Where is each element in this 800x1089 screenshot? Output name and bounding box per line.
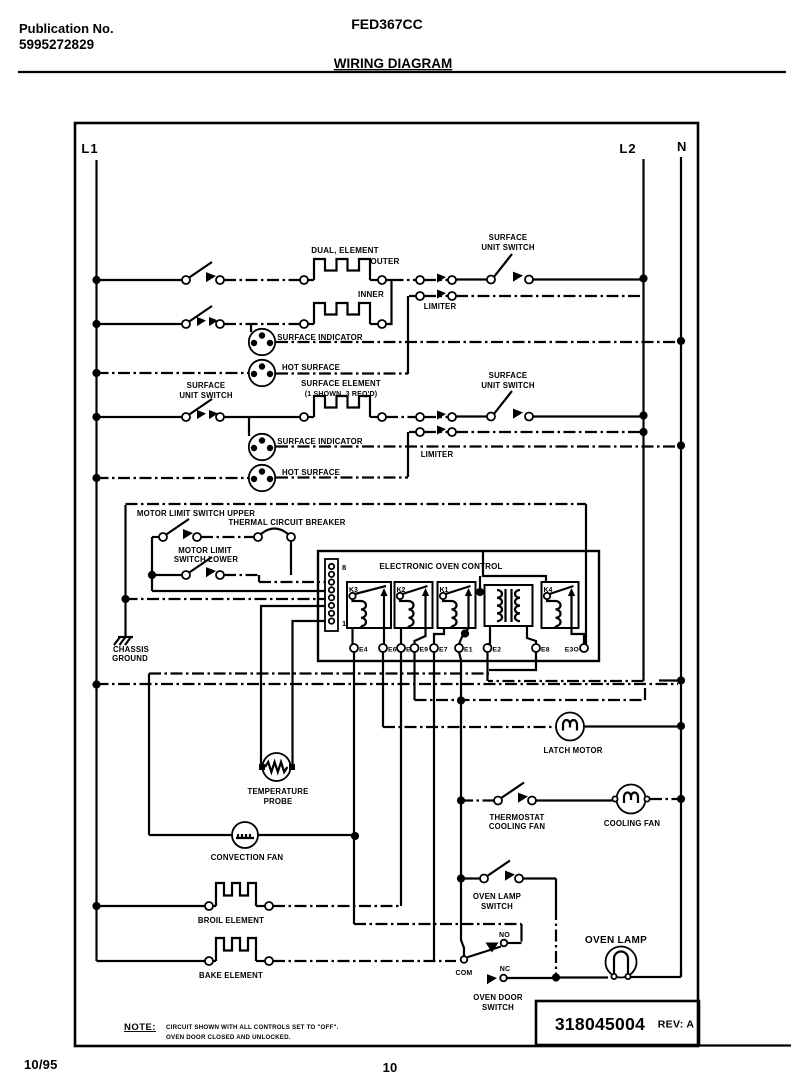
switch thermostat cooling fan (494, 797, 502, 805)
wire upper switch to TCB (201, 536, 254, 538)
wire surface element right lead (370, 416, 378, 418)
svg-text:SWITCH LOWER: SWITCH LOWER (174, 555, 239, 564)
junction lower-limit-switch feed (148, 571, 156, 579)
wire chassis branch to EOC pin strip (126, 598, 326, 600)
surface unit switch SW1 (right) (487, 276, 495, 284)
wire K2 coil to E5 (400, 628, 402, 644)
wire E5 drop (400, 652, 402, 906)
diagram border frame (75, 123, 698, 1046)
wire lower switch feed (152, 574, 182, 576)
svg-text:COOLING FAN: COOLING FAN (489, 822, 546, 831)
wire E8 jog to E2 drop (489, 652, 536, 670)
svg-text:E7: E7 (439, 647, 448, 654)
svg-text:CONVECTION FAN: CONVECTION FAN (211, 853, 284, 862)
wire K3 arrow to E6 (383, 628, 385, 644)
wire NC to junction (507, 977, 552, 979)
indicator lamp SURFACE INDICATOR 2 (249, 434, 275, 460)
terminal outer element right (378, 276, 386, 284)
svg-text:COOLING FAN: COOLING FAN (604, 819, 661, 828)
svg-text:SURFACE: SURFACE (489, 233, 528, 242)
thermal circuit breaker (254, 529, 295, 542)
terminal surface element right (378, 413, 386, 421)
wire broil right lead (256, 905, 265, 907)
wire lower switch to EOC pin (224, 575, 325, 582)
svg-text:(1 SHOWN, 3 REQ'D): (1 SHOWN, 3 REQ'D) (305, 391, 378, 398)
wire TCB drop to lower row (290, 541, 292, 575)
svg-text:ELECTRONIC OVEN CONTROL: ELECTRONIC OVEN CONTROL (379, 562, 502, 571)
wire limiter2 bracket down (407, 432, 409, 477)
svg-text:HOT SURFACE: HOT SURFACE (282, 468, 340, 477)
junction L1 long run (92, 680, 100, 688)
svg-text:SURFACE INDICATOR: SURFACE INDICATOR (277, 437, 363, 446)
junction latch motor N (677, 722, 685, 730)
limiter contact dashes (424, 295, 448, 297)
wire K1 coil to E7 (434, 628, 444, 644)
wire stub to N (659, 679, 677, 681)
wire lamp switch drop solid (555, 879, 557, 909)
limiter contact dashes (424, 431, 448, 433)
wire E1 drop (459, 652, 464, 956)
junction L1 row2 (92, 320, 100, 328)
junction L1 row4 (92, 413, 100, 421)
wire chassis to E3O top run (126, 503, 587, 505)
EOC pin connector strip (325, 559, 338, 631)
wire T1 to E8 (527, 626, 536, 644)
wire hot-surface2 to limiter2 bracket (276, 476, 408, 478)
svg-text:UNIT SWITCH: UNIT SWITCH (481, 381, 534, 390)
terminal inner element right (378, 320, 386, 328)
wire T1 to E2 (488, 626, 491, 644)
svg-text:REV: A: REV: A (658, 1019, 695, 1031)
triangle NC (487, 974, 497, 984)
svg-text:MOTOR LIMIT SWITCH UPPER: MOTOR LIMIT SWITCH UPPER (137, 509, 255, 518)
svg-text:NC: NC (500, 966, 511, 973)
svg-text:SURFACE ELEMENT: SURFACE ELEMENT (301, 379, 381, 388)
wire probe right from pin strip (293, 621, 326, 764)
svg-text:N: N (677, 139, 687, 154)
wire N bus vertical (680, 157, 682, 977)
wire row4 after element (386, 416, 416, 418)
svg-text:10/95: 10/95 (24, 1057, 58, 1072)
svg-text:8: 8 (342, 563, 346, 572)
motor cooling fan (612, 785, 649, 814)
wire limiter2 to L2 (456, 431, 640, 433)
wire convection fan to E4 node (258, 834, 352, 836)
junction row1 L2 (639, 274, 647, 282)
svg-text:SWITCH: SWITCH (481, 902, 513, 911)
header rule (18, 71, 786, 73)
relay K2 (395, 582, 433, 628)
svg-text:CHASSIS: CHASSIS (113, 645, 149, 654)
svg-text:THERMAL CIRCUIT BREAKER: THERMAL CIRCUIT BREAKER (228, 518, 345, 527)
svg-text:SWITCH: SWITCH (482, 1003, 514, 1012)
svg-text:5995272829: 5995272829 (19, 37, 94, 52)
svg-text:L2: L2 (619, 141, 636, 156)
svg-text:OVEN DOOR: OVEN DOOR (473, 993, 523, 1002)
wire K3 coil to E4 (351, 628, 353, 644)
terminal door switch NO (501, 940, 508, 947)
svg-text:CIRCUIT SHOWN WITH ALL CONTROL: CIRCUIT SHOWN WITH ALL CONTROLS SET TO "… (166, 1024, 339, 1031)
svg-text:E6: E6 (388, 647, 397, 654)
svg-text:1: 1 (342, 619, 346, 628)
limiter 2 contacts (416, 428, 424, 436)
svg-text:UNIT SWITCH: UNIT SWITCH (481, 243, 534, 252)
terminal bake left (205, 957, 213, 965)
wire hot-surface1 to limiter bracket (276, 372, 408, 374)
svg-text:OVEN LAMP: OVEN LAMP (473, 892, 521, 901)
wire outer element lead (308, 279, 314, 281)
terminal E1 (455, 644, 463, 652)
svg-text:MOTOR LIMIT: MOTOR LIMIT (178, 546, 232, 555)
contact pair row1 (416, 276, 424, 284)
junction diamond at K4 feed (476, 588, 484, 596)
svg-text:OVEN LAMP: OVEN LAMP (585, 935, 647, 946)
heating element BROIL ELEMENT (216, 883, 256, 906)
chassis ground symbol (114, 633, 133, 645)
junction NC lamp feed (552, 973, 560, 981)
wire diamond riser (479, 576, 481, 592)
svg-text:E4: E4 (359, 647, 368, 654)
svg-text:WIRING DIAGRAM: WIRING DIAGRAM (334, 56, 453, 71)
svg-text:L1: L1 (81, 141, 98, 156)
junction E1/E9 run (457, 696, 465, 704)
limiter contact dashes (424, 416, 448, 418)
wire convection top run (149, 672, 489, 674)
svg-text:BROIL ELEMENT: BROIL ELEMENT (198, 916, 264, 925)
svg-text:E8: E8 (541, 647, 550, 654)
wire outer/inner join riser (386, 280, 392, 324)
junction L1 hot-surface1 (92, 369, 100, 377)
svg-text:OUTER: OUTER (371, 257, 400, 266)
wire broil from L1 (97, 905, 206, 907)
wire indicator2 riser (248, 417, 250, 436)
wire indicator1 riser from row2 (250, 324, 252, 332)
relay K1 (438, 582, 476, 628)
svg-text:DUAL, ELEMENT: DUAL, ELEMENT (311, 246, 379, 255)
surface unit switch pole 1 (row1) (182, 276, 190, 284)
surface unit switch pole (row4) (182, 413, 190, 421)
lamp OVEN LAMP (606, 947, 637, 980)
wire E9 run right riser (415, 688, 646, 700)
wire limiter1 left stub (409, 295, 416, 297)
wire row4 to element (224, 416, 300, 418)
wire E6 drop (382, 652, 384, 727)
wire row2 to inner element (224, 323, 300, 325)
svg-text:10: 10 (383, 1060, 398, 1075)
transformer T1 (485, 585, 533, 626)
svg-text:LATCH MOTOR: LATCH MOTOR (543, 746, 602, 755)
wire broil lead (213, 905, 216, 907)
wire upper-limit-switch feed (152, 536, 159, 538)
wire row1 after elements (392, 279, 417, 281)
wire bake from L1 end (97, 960, 206, 962)
wire common to EOC pin (152, 590, 325, 592)
wire row1 to outer element (224, 279, 300, 281)
wire NO bracket drop (520, 924, 522, 942)
wire surface element lead (308, 416, 314, 418)
wire hot-surface2 from L1 (97, 477, 250, 479)
wire indicator2 to N (276, 445, 677, 447)
svg-text:INNER: INNER (358, 290, 384, 299)
terminal outer element left (300, 276, 308, 284)
terminal E2 (484, 644, 492, 652)
motor limit switch lower (182, 571, 190, 579)
junction L1 broil (92, 902, 100, 910)
terminal bake right (265, 957, 273, 965)
indicator lamp HOT SURFACE 1 (249, 360, 275, 386)
bottom page rule extension (698, 1044, 791, 1046)
wire E2 drop (486, 652, 488, 681)
svg-text:SURFACE: SURFACE (489, 371, 528, 380)
wire limiter1 bracket down to hot-surface row (407, 296, 409, 374)
wire L1 bus vertical (95, 160, 97, 961)
wire E6 to latch motor (383, 726, 556, 728)
heating element DUAL ELEMENT INNER (314, 303, 370, 324)
junction chassis branch (121, 595, 129, 603)
heating element BAKE ELEMENT (216, 938, 256, 961)
wire row4 from L1 (97, 416, 183, 418)
wire indicator1 to N (276, 341, 677, 343)
wire to convection fan (149, 834, 232, 836)
terminal door switch COM (461, 956, 468, 963)
motor convection fan (232, 822, 258, 848)
wire L2 bus vertical (642, 159, 644, 681)
wire row1 to L2 (533, 278, 640, 280)
wire K2 arrow to E9 (415, 628, 426, 644)
wire row2 from L1 (97, 323, 183, 325)
heating element SURFACE ELEMENT (314, 396, 370, 417)
junction indicator1 N (677, 337, 685, 345)
terminal inner element left (300, 320, 308, 328)
wire lamp switch output (523, 877, 556, 879)
electronic oven control box (318, 551, 599, 661)
svg-text:UNIT SWITCH: UNIT SWITCH (179, 391, 232, 400)
terminal surface element left (300, 413, 308, 421)
wire long L1-N run (97, 683, 679, 685)
terminal E5 (397, 644, 405, 652)
wire outer element right lead (370, 279, 378, 281)
junction E4 convection fan (351, 832, 359, 840)
terminal broil left (205, 902, 213, 910)
wire limiter1 to L2 (456, 295, 643, 297)
wire limit switch common bracket (151, 537, 153, 591)
wire to thermostat switch (461, 799, 494, 801)
junction limiter2 L2 (639, 428, 647, 436)
temperature probe (259, 753, 295, 781)
motor LATCH MOTOR (556, 713, 584, 741)
heating element DUAL ELEMENT OUTER (314, 259, 370, 280)
terminal door switch NC (500, 975, 507, 982)
wire E4 drop (353, 652, 355, 924)
wire K1 arrow to E1 (459, 628, 469, 644)
junction row4 L2 (639, 411, 647, 419)
wire probe left from pin strip (261, 606, 325, 764)
wire oven lamp to N (630, 970, 681, 977)
door switch blade COM-NO (467, 947, 502, 958)
terminal broil right (265, 902, 273, 910)
terminal E7 (430, 644, 438, 652)
junction L1 hot-surface2 (92, 474, 100, 482)
svg-text:SURFACE INDICATOR: SURFACE INDICATOR (277, 333, 363, 342)
surface unit switch SW2 (right) (487, 413, 495, 421)
wire inner element right lead (370, 323, 378, 325)
svg-text:318045004: 318045004 (555, 1014, 645, 1034)
terminal E3O (580, 644, 588, 652)
wire row4 to L2 (533, 415, 640, 417)
terminal E9 (411, 644, 419, 652)
svg-text:HOT SURFACE: HOT SURFACE (282, 363, 340, 372)
svg-text:PROBE: PROBE (264, 797, 293, 806)
wire to oven lamp (556, 976, 608, 978)
svg-text:GROUND: GROUND (112, 654, 148, 663)
wire to oven lamp switch (461, 877, 480, 879)
svg-text:NO: NO (499, 932, 510, 939)
wire convection left riser (148, 674, 150, 836)
surface unit switch pole 2 (row2) (182, 320, 190, 328)
wire bake right lead (256, 960, 265, 962)
junction L1 row1 (92, 276, 100, 284)
junction oven lamp switch feed (457, 874, 465, 882)
svg-text:LIMITER: LIMITER (424, 302, 457, 311)
relay K4 (542, 582, 579, 628)
wire E9 drop (413, 652, 415, 700)
svg-text:E3O: E3O (565, 647, 579, 654)
svg-text:BAKE ELEMENT: BAKE ELEMENT (199, 971, 263, 980)
svg-text:E2: E2 (493, 647, 502, 654)
wire K4 pivot to EOC top (483, 551, 546, 582)
terminal E8 (532, 644, 540, 652)
svg-text:LIMITER: LIMITER (421, 450, 454, 459)
switch oven lamp (480, 875, 488, 883)
limiter 1 contacts (416, 292, 424, 300)
wire broil to E5 drop (273, 905, 400, 907)
wire L2 bottom run to E2 (488, 680, 644, 682)
wire K4 arrow to E3O (572, 628, 585, 644)
svg-text:NOTE:: NOTE: (124, 1022, 156, 1033)
terminal E4 (350, 644, 358, 652)
terminal E6 (379, 644, 387, 652)
wire latch motor to N (584, 725, 677, 727)
wire E7 drop (433, 652, 435, 961)
svg-text:SURFACE: SURFACE (187, 381, 226, 390)
junction cooling fan N (677, 795, 685, 803)
wire E3O drop (585, 504, 587, 644)
wire hot-surface1 from L1 (97, 372, 250, 374)
wire lamp switch drop dashed (555, 908, 557, 974)
svg-text:Publication No.: Publication No. (19, 21, 114, 36)
wire cooling fan to N (650, 798, 677, 800)
wire bake to door switch COM (273, 960, 456, 962)
indicator lamp HOT SURFACE 2 (249, 465, 275, 491)
wire limiter2 left stub (409, 431, 416, 433)
indicator lamp SURFACE INDICATOR 1 (249, 329, 275, 355)
wire chassis riser (124, 505, 126, 633)
relay K3 (347, 582, 391, 628)
motor limit switch upper (159, 533, 167, 541)
wire E4 run to door switch NO (354, 923, 522, 925)
contact pair row4 (416, 413, 424, 421)
svg-text:OVEN DOOR CLOSED AND UNLOCKED.: OVEN DOOR CLOSED AND UNLOCKED. (166, 1034, 291, 1041)
svg-text:FED367CC: FED367CC (351, 16, 423, 32)
wire to cooling fan (536, 799, 612, 801)
svg-text:TEMPERATURE: TEMPERATURE (248, 787, 309, 796)
wire NO stub (507, 942, 521, 944)
wire bake lead (213, 960, 216, 962)
svg-text:THERMOSTAT: THERMOSTAT (490, 813, 545, 822)
door switch blade arrow (486, 943, 499, 953)
wire row1 to surface unit switch (456, 278, 487, 280)
svg-text:COM: COM (456, 970, 473, 977)
wire inner element lead (308, 323, 314, 325)
junction indicator2 N (677, 441, 685, 449)
junction N lower (677, 676, 685, 684)
svg-text:E1: E1 (464, 647, 473, 654)
wire row1 from L1 (97, 279, 183, 281)
part number box (536, 1001, 699, 1045)
junction diamond below K1 (461, 629, 469, 637)
svg-text:E9: E9 (420, 647, 429, 654)
wire row4 to surface unit switch 2 (456, 415, 487, 417)
limiter contact dashes (424, 279, 448, 281)
junction cooling fan feed (457, 796, 465, 804)
